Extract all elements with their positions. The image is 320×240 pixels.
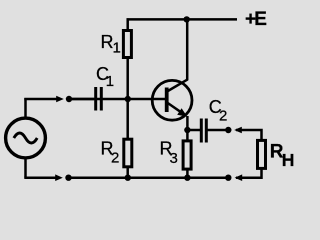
node dot output top [225,127,231,133]
wire bottom rail [69,176,229,179]
resistor R2 [124,139,132,167]
label R2 [101,139,120,167]
wire C1 left lead [69,98,94,101]
wire RH bottom with corner [236,168,262,178]
wire input bottom from source to arrow [24,176,56,179]
label C1 [96,64,114,90]
wire R1 bottom lead to base node [126,57,129,140]
resistor RH [258,140,266,168]
wire collector vertical [186,19,189,80]
resistor R1 [123,31,131,58]
label R3 [160,139,178,168]
node dot input bottom [65,175,71,181]
arrow input top [56,96,64,103]
wire top rail [127,18,238,21]
wire emitter to C2 [187,129,200,132]
node dot R2 bottom [125,175,131,181]
label R1 [101,32,121,57]
wire R3 bottom lead [186,168,189,178]
capacitor C2 [201,119,206,143]
arrow output top [234,127,242,134]
label C2 [209,97,228,125]
resistor R3 [183,141,191,169]
node dot output bottom [225,175,231,181]
wire emitter vertical [186,116,189,140]
wire base horizontal [69,98,166,101]
wire input top from source to arrow [24,98,57,101]
capacitor C1 [96,87,102,111]
arrow input bottom [55,174,63,181]
wire R2 bottom lead [126,166,129,178]
node dot R3 bottom [184,175,190,181]
svg-text:3: 3 [170,150,178,167]
svg-text:2: 2 [219,108,227,125]
svg-text:H: H [282,150,295,170]
node dot input top [66,96,72,102]
node dot base [125,96,131,102]
svg-text:1: 1 [113,39,121,56]
wire R1 top lead [126,18,129,32]
transistor Q1 [152,79,192,120]
arrow output bottom [235,174,243,181]
AC source [6,118,46,158]
svg-text:2: 2 [111,150,119,167]
label RH [270,142,295,170]
wire C2 to output node [207,129,228,132]
svg-text:1: 1 [106,73,114,90]
wire source left vertical bottom [24,159,27,178]
node dot emitter [184,127,190,133]
wire RH top with corner [236,130,262,140]
wire source left vertical top [24,98,27,117]
svg-text:E: E [254,9,267,30]
node dot top rail / collector [184,16,190,22]
